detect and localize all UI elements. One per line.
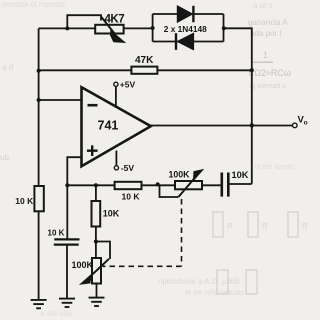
ghost bleedthrough resistor rects [213,212,298,294]
diode D1 top (pointing right) [177,6,193,23]
svg-text:a ut s: a ut s [253,1,273,10]
wire: 100K right pot wiper loop [160,185,179,197]
op-amp minus sign [88,104,98,107]
wire: noninverting input down to node [67,157,81,185]
node: rail 47K [37,69,41,73]
svg-text:10 K: 10 K [48,229,65,238]
diode D2 bottom (pointing left) [176,33,194,50]
svg-text:R: R [262,221,268,230]
terminal Vo [293,123,298,128]
wire: top horizontal y=28.4 from rail to diode box [39,27,153,29]
svg-text:2 x 1N4148: 2 x 1N4148 [164,24,207,34]
ground 1 (left) [31,300,47,308]
wire: bottom node line y=185.3 [67,184,221,186]
resistor 10K horizontal [115,182,142,189]
ground 2 (middle) [59,299,75,307]
svg-text:R: R [302,221,308,230]
op-amp U1 741 [82,87,151,166]
resistor 10K left vertical [34,186,43,211]
node: diode left [151,26,155,30]
svg-text:a d: a d [2,63,13,72]
svg-text:+5V: +5V [120,80,136,90]
terminal -5V [114,166,118,170]
svg-text:4K7: 4K7 [105,14,125,26]
node: 100K pot left [156,182,160,186]
terminal +5V [114,82,118,86]
capacitor 10K right [222,173,229,197]
wire: staple from node dot to pot wiper [96,242,110,260]
svg-text:10 K: 10 K [15,196,34,206]
wire: cap to right vertical [229,183,252,185]
wire: node down through cap to ground [66,185,68,298]
wire: inverting input y=100 [39,99,82,101]
wire: left rail vertical x=38.6 from top wire to ground [38,28,40,299]
wire: -5V stub [115,151,117,166]
op-amp plus sign [87,145,98,156]
svg-text:ganancia A: ganancia A [248,18,288,27]
wire: 47K feedback line y=70.3 [39,69,252,71]
node: rail inverting [37,98,41,102]
svg-text:nt tbe identic: nt tbe identic [255,164,295,171]
100K wiper arrow [82,259,109,284]
svg-text:10K: 10K [232,170,249,180]
node: output [250,123,254,127]
wire: 4K7 wiper return loop [67,15,101,28]
svg-text:a snl oqs: a snl oqs [40,309,72,318]
node: diode right [222,26,226,30]
svg-text:R: R [227,221,233,230]
svg-text:lg wernad s: lg wernad s [250,83,286,90]
wire: output to Vo [150,125,293,127]
svg-text:ub: ub [0,153,9,162]
resistor 4K7 pot body [95,25,123,34]
svg-text:100K: 100K [72,260,94,270]
wire: diode box outline [153,14,224,42]
wire: +5V stub [115,87,117,107]
svg-text:ada por l: ada por l [250,29,281,38]
100K wiper arrow [179,171,202,197]
svg-text:le ne referencias: le ne referencias [185,288,244,297]
node: 47K right [250,68,254,72]
node: plus input [65,183,69,187]
capacitor 10K bottom left [54,239,80,244]
4K7 wiper arrow [101,17,123,42]
svg-text:741: 741 [98,119,119,133]
wire: right node over and down to output [224,28,252,184]
ground 3 (right) [89,298,105,306]
svg-text:10K: 10K [103,208,120,218]
svg-text:πΩ2≈RCω: πΩ2≈RCω [248,68,291,78]
node: staple [94,240,98,244]
svg-text:mnstda ol rnanstc: mnstda ol rnanstc [2,0,65,9]
dashed coupling line [103,199,182,266]
svg-text:o: o [304,119,308,126]
potentiometer 100K right horizontal [175,181,202,189]
potentiometer 100K bottom vertical [92,258,101,284]
wire: node down 10K to pot to ground [95,185,98,297]
svg-text:47K: 47K [135,55,154,66]
resistor 47K [131,67,157,74]
svg-text:1: 1 [263,50,268,60]
svg-text:-5V: -5V [121,163,135,173]
svg-text:100K: 100K [169,170,191,180]
svg-text:10 K: 10 K [122,192,141,202]
resistor 10K middle vertical [92,201,101,227]
node: 4K7 wiper junction [65,26,69,30]
node: 10K branch [94,183,98,187]
